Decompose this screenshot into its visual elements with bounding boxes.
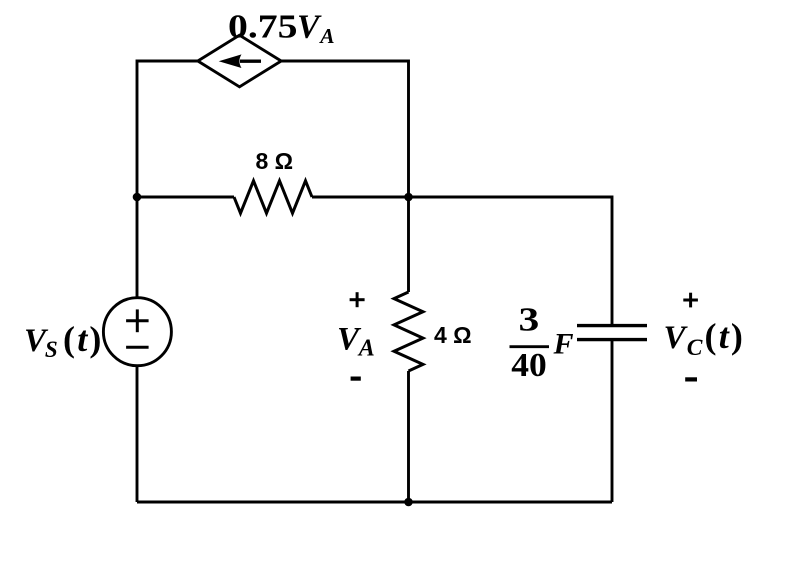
svg-text:8 Ω: 8 Ω [256, 148, 294, 174]
svg-text:(t): (t) [705, 316, 746, 356]
label plus VC [683, 293, 698, 308]
node dot left-middle [133, 193, 142, 202]
svg-text:F: F [553, 328, 574, 361]
label 3/40 F fraction [510, 301, 574, 384]
svg-text:C: C [687, 335, 703, 361]
plus sign inside source [126, 309, 149, 332]
wire middle rail right to cap branch corner [312, 197, 612, 325]
wire top-left: diamond left tip to left rail [137, 61, 198, 298]
svg-text:A: A [318, 24, 334, 48]
svg-text:A: A [357, 335, 375, 361]
svg-text:V: V [664, 320, 689, 356]
arrow inside diamond [219, 54, 261, 68]
svg-text:S: S [45, 337, 58, 362]
wire diamond right tip to top-right corner down to node B [281, 61, 408, 197]
resistor 8 ohm zigzag [234, 181, 312, 213]
resistor 4 ohm zigzag [394, 292, 423, 371]
label plus VA [350, 292, 365, 307]
label minus VA [351, 377, 361, 381]
wire 4ohm resistor to bottom rail [407, 371, 410, 502]
capacitor C plates [577, 326, 647, 340]
wire node B down to 4ohm resistor [407, 197, 410, 292]
label VA [337, 321, 375, 361]
label VS(t) [24, 319, 104, 362]
svg-text:(t): (t) [63, 319, 104, 359]
wire left rail bottom [136, 366, 139, 502]
svg-text:V: V [297, 9, 322, 46]
wire bottom rail [137, 501, 612, 504]
minus sign inside source [126, 346, 149, 349]
svg-text:40: 40 [511, 347, 547, 384]
label 0.75VA on dependent source [228, 9, 335, 48]
svg-text:3: 3 [519, 301, 540, 339]
wire capacitor bottom [611, 340, 614, 502]
node dot bottom [404, 498, 413, 507]
voltage source VS circle [103, 298, 171, 366]
node dot B middle [404, 193, 413, 202]
label VC(t) [664, 316, 746, 361]
svg-text:4 Ω: 4 Ω [434, 322, 472, 348]
wire middle rail left [137, 196, 234, 199]
dependent current source diamond [198, 35, 281, 87]
label minus VC [685, 377, 697, 381]
svg-text:0.75: 0.75 [228, 9, 298, 46]
